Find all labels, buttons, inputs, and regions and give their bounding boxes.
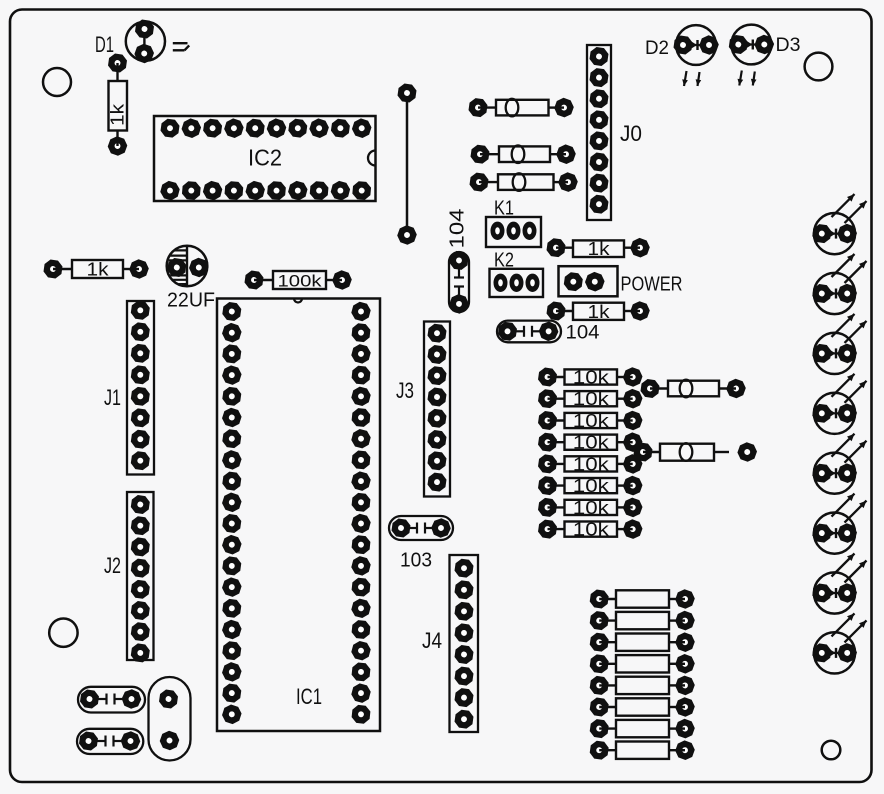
svg-text:J4: J4 [422,628,442,653]
svg-text:22UF: 22UF [167,290,215,312]
svg-text:104: 104 [566,323,600,344]
svg-text:10k: 10k [573,433,610,453]
svg-text:1k: 1k [108,103,128,126]
svg-text:D3: D3 [776,35,801,56]
svg-text:J1: J1 [104,385,121,410]
svg-text:1k: 1k [588,239,611,259]
svg-text:10k: 10k [573,498,610,518]
svg-text:100k: 100k [278,272,323,291]
svg-text:J0: J0 [620,121,642,146]
svg-text:IC2: IC2 [248,145,282,171]
svg-text:1k: 1k [87,260,110,280]
svg-text:10k: 10k [573,476,610,496]
svg-text:10k: 10k [573,520,610,540]
svg-text:POWER: POWER [621,274,683,296]
svg-text:1k: 1k [588,302,611,322]
svg-text:D1: D1 [95,32,114,57]
svg-text:10k: 10k [573,368,610,388]
svg-text:D2: D2 [645,38,669,59]
svg-text:10k: 10k [573,411,610,431]
svg-text:104: 104 [447,209,469,249]
svg-text:10k: 10k [573,454,610,474]
svg-text:J2: J2 [104,553,121,578]
svg-text:IC1: IC1 [296,684,322,709]
svg-text:10k: 10k [573,389,610,409]
svg-text:J3: J3 [396,378,414,403]
svg-text:103: 103 [400,550,432,572]
